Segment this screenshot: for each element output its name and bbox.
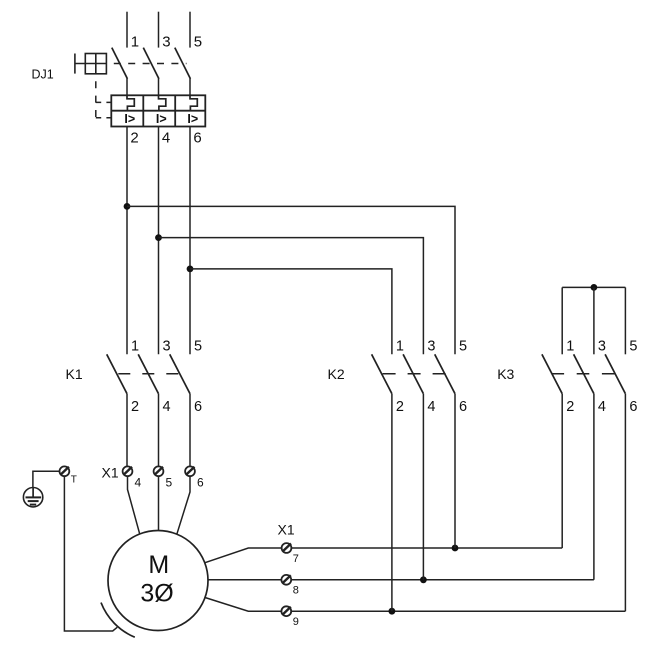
terminal X1-9 (281, 606, 291, 616)
terminal X1-5 (154, 466, 164, 476)
wire terminal X1-4 to motor U1 (128, 476, 140, 534)
svg-text:5: 5 (166, 475, 173, 489)
thermal overload element pole 1 (127, 95, 134, 110)
wire L3 DJ1 to K1 (189, 127, 191, 355)
svg-text:I>: I> (156, 112, 167, 126)
svg-text:5: 5 (459, 338, 467, 354)
wire K2 pin 6 down to line 7 (454, 394, 456, 548)
svg-text:6: 6 (459, 399, 467, 415)
svg-text:5: 5 (194, 34, 202, 51)
junction dot K2 pin 6 on line 7 (452, 545, 459, 552)
svg-text:4: 4 (162, 129, 170, 146)
wire K1 pin 2 to terminal X1-4 (126, 394, 128, 472)
svg-text:1: 1 (131, 34, 139, 51)
svg-text:1: 1 (566, 338, 574, 354)
wire motor V2 to terminal X1-8 (208, 579, 594, 581)
svg-text:3: 3 (427, 338, 435, 354)
svg-text:5: 5 (194, 338, 202, 354)
svg-text:6: 6 (194, 399, 202, 415)
svg-text:2: 2 (396, 399, 404, 415)
K3 star-point bus wire (562, 286, 625, 288)
junction dot K2 pin 4 on line 8 (420, 576, 427, 583)
svg-text:6: 6 (193, 129, 201, 146)
feeder wire L2 to K2 pole 3 (159, 238, 424, 355)
wire L1 supply top (126, 12, 128, 48)
junction dot L2 tap (155, 234, 162, 241)
motor M 3-phase (108, 531, 208, 631)
DJ1 pole 3 contact blade (175, 48, 191, 79)
DJ1 thermal/magnetic trip box (111, 95, 205, 126)
svg-text:T: T (71, 474, 77, 485)
wire terminal T to PE symbol (33, 471, 60, 487)
svg-text:X1: X1 (278, 522, 295, 538)
svg-text:1: 1 (131, 338, 139, 354)
wire bus to K3 pole 1 (561, 287, 563, 354)
svg-text:2: 2 (131, 399, 139, 415)
svg-text:M: M (148, 551, 169, 579)
svg-text:2: 2 (566, 399, 574, 415)
wire bus to K3 pole 3 (593, 287, 595, 354)
svg-text:6: 6 (197, 475, 204, 489)
svg-text:K2: K2 (328, 366, 345, 382)
DJ1 pole 2 contact blade (143, 48, 159, 79)
PE wire terminal T to motor frame (64, 476, 117, 631)
wire K1 pin 4 to terminal X1-5 (158, 394, 160, 472)
svg-text:4: 4 (135, 475, 142, 489)
svg-text:X1: X1 (102, 465, 119, 481)
wire L3 supply top (189, 12, 191, 48)
DJ1 operating mechanism (75, 54, 107, 74)
svg-text:4: 4 (427, 399, 435, 415)
feeder wire L1 to K2 pole 5 (127, 206, 455, 354)
thermal overload element pole 3 (190, 95, 197, 110)
K2 pole contact blade 1-2 (372, 354, 392, 393)
svg-text:6: 6 (629, 399, 637, 415)
svg-text:4: 4 (163, 399, 171, 415)
svg-text:DJ1: DJ1 (32, 68, 54, 82)
terminal X1-7 (282, 543, 292, 553)
svg-text:4: 4 (598, 399, 606, 415)
svg-text:I>: I> (187, 112, 198, 126)
svg-text:3: 3 (162, 34, 170, 51)
wire X1-8 riser to K3 pin 4 (593, 394, 595, 580)
motor frame earth arc (101, 603, 135, 638)
wire X1-7 riser to K3 pin 2 (561, 394, 563, 548)
wire K2 pin 2 down to line 9 (391, 394, 393, 612)
svg-text:K1: K1 (66, 366, 83, 382)
terminal X1-6 (185, 466, 195, 476)
junction dot K2 pin 2 on line 9 (389, 608, 396, 615)
wire L1 DJ1 to K1 (126, 127, 128, 355)
K2 linkage dashed line (383, 373, 446, 375)
K3 pole contact blade 3-4 (574, 354, 594, 393)
wire DJ1 pole 2 to trip box (158, 78, 160, 95)
svg-text:8: 8 (293, 584, 299, 596)
wire terminal X1-5 to motor V1 (158, 476, 160, 531)
svg-text:1: 1 (396, 338, 404, 354)
DJ1 linkage tick to magnetic row (96, 117, 111, 119)
wire L2 DJ1 to K1 (158, 127, 160, 355)
PE earth symbol (23, 488, 42, 507)
junction dot star point (591, 284, 598, 291)
thermal overload element pole 2 (159, 95, 166, 110)
wire K2 pin 4 down to line 8 (422, 394, 424, 580)
wire K1 pin 6 to terminal X1-6 (189, 394, 191, 472)
svg-text:3Ø: 3Ø (140, 580, 173, 608)
wire motor U2 to terminal X1-7 (205, 548, 563, 563)
wire DJ1 pole 1 to trip box (126, 78, 128, 95)
K1 linkage dashed line (118, 373, 178, 375)
K3 pole contact blade 5-6 (605, 354, 625, 393)
terminal X1-8 (281, 575, 291, 585)
svg-text:9: 9 (293, 616, 299, 628)
svg-text:K3: K3 (497, 366, 514, 382)
wire X1-9 riser to K3 pin 6 (624, 394, 626, 612)
terminal X1-4 (123, 466, 133, 476)
svg-text:2: 2 (130, 129, 138, 146)
K1 pole contact blade 5-6 (170, 354, 190, 393)
DJ1 trip linkage dashed horizontal (106, 63, 186, 65)
junction dot L1 tap (124, 203, 131, 210)
wire bus to K3 pole 5 (624, 287, 626, 354)
svg-text:3: 3 (163, 338, 171, 354)
K1 pole contact blade 1-2 (107, 354, 127, 393)
DJ1 trip linkage dashed vertical (95, 74, 97, 118)
K2 pole contact blade 5-6 (435, 354, 455, 393)
terminal T (PE) (60, 466, 70, 476)
K3 linkage dashed line (552, 373, 615, 375)
wire L2 supply top (158, 12, 160, 48)
svg-text:I>: I> (124, 112, 135, 126)
wire motor W2 to terminal X1-9 (205, 597, 626, 611)
feeder wire L3 to K2 pole 1 (190, 269, 392, 354)
DJ1 pole 1 contact blade (112, 48, 128, 79)
junction dot L3 tap (187, 266, 194, 273)
svg-text:3: 3 (598, 338, 606, 354)
wire DJ1 pole 3 to trip box (189, 78, 191, 95)
DJ1 linkage tick to thermal row (96, 101, 111, 103)
K2 pole contact blade 3-4 (403, 354, 423, 393)
svg-text:5: 5 (629, 338, 637, 354)
wire terminal X1-6 to motor W1 (177, 476, 190, 534)
K1 pole contact blade 3-4 (138, 354, 158, 393)
svg-text:7: 7 (293, 553, 299, 565)
K3 pole contact blade 1-2 (542, 354, 562, 393)
